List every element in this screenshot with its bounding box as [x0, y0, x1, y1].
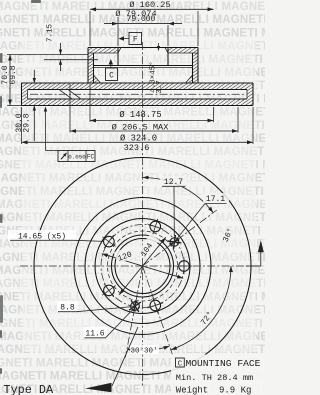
bolt circle dash-dot: [101, 225, 184, 308]
horizontal centerline: [20, 265, 261, 267]
friction ring outline: [22, 83, 254, 106]
svg-text:30°30': 30°30': [130, 347, 157, 356]
arc dim 30d30: [127, 346, 170, 351]
runout tolerance frame: [45, 108, 47, 151]
bore chamfer: [118, 48, 121, 54]
svg-text:323.6: 323.6: [124, 143, 150, 153]
svg-text:12.7: 12.7: [164, 178, 183, 187]
svg-text:3.7: 3.7: [156, 80, 164, 94]
section hatching: [22, 48, 254, 106]
svg-text:MAGNETI MARELLI MAGNETI MARELL: MAGNETI MARELLI MAGNETI MARELLI MAGNETI …: [0, 67, 265, 79]
vent vane: [59, 90, 81, 100]
type DA leader arrow: [112, 327, 138, 386]
svg-text:MAGNETI MARELLI MAGNETI MARELL: MAGNETI MARELLI MAGNETI MARELLI MAGNETI …: [0, 54, 265, 66]
leader 11.6: [83, 327, 107, 338]
svg-text:79.000: 79.000: [127, 15, 156, 24]
svg-text:FC: FC: [87, 154, 95, 161]
svg-text:29.8: 29.8: [23, 113, 32, 132]
hole A (12.7/17.1): [170, 238, 179, 247]
svg-text:MAGNETI MARELLI MAGNETI MARELL: MAGNETI MARELLI MAGNETI MARELLI MAGNETI …: [0, 159, 265, 171]
up arrow right side: [258, 240, 264, 252]
circle 104 dashed: [108, 231, 178, 301]
svg-text:F: F: [133, 36, 138, 45]
svg-text:17.1: 17.1: [206, 195, 225, 204]
radial dash-dot lines: [143, 210, 217, 266]
vertical centerline: [142, 42, 144, 386]
leader 14.65 x5: [8, 230, 76, 241]
vent centerline: [30, 93, 245, 95]
hat outline: [88, 48, 198, 84]
dia dim line 104: [119, 237, 166, 295]
arc dim 72: [171, 266, 231, 350]
leader 17.1: [203, 193, 229, 204]
scan smudges: [0, 0, 41, 374]
dia dim line 120: [102, 254, 183, 279]
svg-text:11.6: 11.6: [85, 330, 104, 339]
svg-text:7.15: 7.15: [47, 24, 55, 43]
svg-text:Ø 148.75: Ø 148.75: [119, 110, 161, 120]
svg-text:Weight 9.9 Kg: Weight 9.9 Kg: [176, 385, 252, 395]
datum F: [119, 36, 125, 40]
svg-text:C: C: [178, 361, 183, 369]
svg-text:MAGNETI MARELLI MAGNETI MARELL: MAGNETI MARELLI MAGNETI MARELLI MAGNETI …: [0, 331, 265, 343]
svg-text:MAGNETI MARELLI MAGNETI MARELL: MAGNETI MARELLI MAGNETI MARELLI MAGNETI …: [0, 265, 265, 277]
arc dim 36: [143, 177, 214, 212]
svg-text:Type DA: Type DA: [4, 383, 54, 395]
svg-text:MAGNETI MARELLI MAGNETI MARELL: MAGNETI MARELLI MAGNETI MARELLI MAGNETI …: [0, 173, 265, 185]
svg-text:C: C: [109, 72, 114, 81]
hole B (8.8/11.6): [131, 302, 140, 311]
svg-text:MAGNETI MARELLI MAGNETI MARELL: MAGNETI MARELLI MAGNETI MARELLI MAGNETI …: [0, 278, 265, 290]
svg-text:0.050: 0.050: [68, 154, 86, 161]
note block: [171, 355, 265, 395]
wall bottom flares: [94, 75, 101, 83]
leader 8.8: [57, 301, 78, 312]
bolt holes x5: [102, 219, 192, 314]
svg-text:MOUNTING FACE: MOUNTING FACE: [186, 358, 261, 369]
svg-text:Min. TH 28.4 mm: Min. TH 28.4 mm: [176, 373, 253, 383]
datum C: [109, 59, 113, 65]
svg-text:MAGNETI MARELLI MAGNETI MARELL: MAGNETI MARELLI MAGNETI MARELLI MAGNETI …: [0, 212, 265, 224]
svg-text:8.8: 8.8: [60, 304, 75, 313]
front view circles: [34, 158, 251, 375]
leader 12.7: [160, 176, 187, 187]
svg-text:Ø 324.0: Ø 324.0: [120, 133, 157, 143]
